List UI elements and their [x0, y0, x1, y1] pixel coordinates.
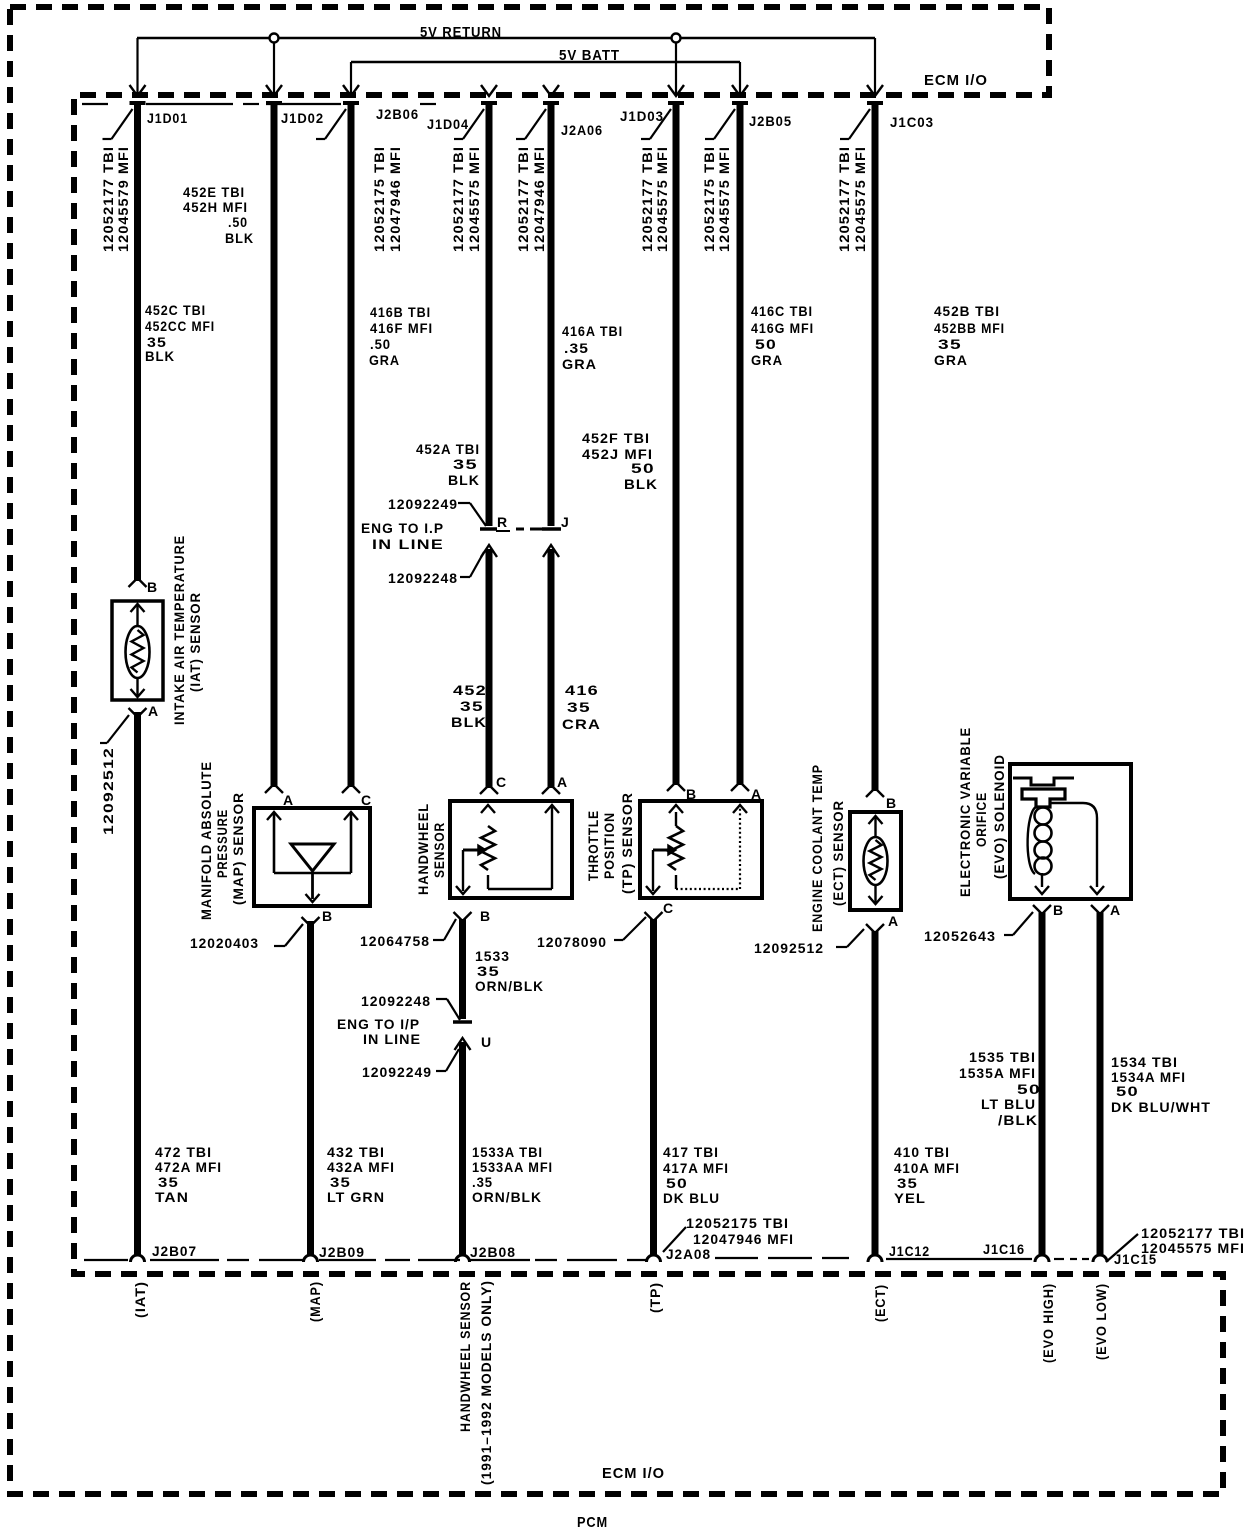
svg-text:12092249: 12092249: [388, 496, 458, 512]
svg-text:B: B: [1053, 902, 1064, 918]
svg-text:.35: .35: [472, 1174, 493, 1190]
svg-text:1535A MFI: 1535A MFI: [959, 1065, 1036, 1081]
svg-text:1535 TBI: 1535 TBI: [969, 1049, 1036, 1065]
svg-text:THROTTLE: THROTTLE: [585, 810, 601, 881]
svg-text:(ECT): (ECT): [872, 1284, 888, 1322]
svg-text:12052175 TBI: 12052175 TBI: [371, 146, 387, 252]
svg-text:U: U: [481, 1034, 492, 1050]
svg-text:BLK: BLK: [145, 348, 175, 364]
svg-text:ORN/BLK: ORN/BLK: [475, 978, 544, 994]
svg-text:12092249: 12092249: [362, 1064, 432, 1080]
svg-text:J1C15: J1C15: [1114, 1251, 1157, 1267]
svg-text:ENG TO I/P: ENG TO I/P: [337, 1016, 420, 1032]
svg-text:INTAKE AIR TEMPERATURE: INTAKE AIR TEMPERATURE: [171, 535, 187, 725]
svg-text:BLK: BLK: [448, 472, 480, 488]
svg-text:B: B: [886, 795, 897, 811]
svg-text:50: 50: [666, 1175, 688, 1191]
svg-text:5V BATT: 5V BATT: [559, 47, 620, 64]
svg-text:416: 416: [565, 682, 599, 698]
svg-text:35: 35: [938, 336, 962, 352]
svg-text:A: A: [751, 786, 762, 802]
svg-text:BLK: BLK: [624, 476, 658, 492]
svg-text:50: 50: [1017, 1081, 1041, 1097]
svg-text:J1D04: J1D04: [427, 116, 469, 132]
svg-text:C: C: [496, 774, 507, 790]
svg-text:B: B: [480, 908, 491, 924]
svg-text:GRA: GRA: [369, 352, 400, 368]
svg-text:452CC MFI: 452CC MFI: [145, 318, 215, 334]
svg-text:BLK: BLK: [451, 714, 487, 730]
svg-text:J2B07: J2B07: [152, 1243, 197, 1259]
svg-text:410A MFI: 410A MFI: [894, 1160, 960, 1176]
svg-text:5V RETURN: 5V RETURN: [420, 24, 502, 41]
svg-text:TAN: TAN: [155, 1189, 189, 1205]
svg-text:/BLK: /BLK: [998, 1112, 1038, 1128]
svg-text:IN LINE: IN LINE: [372, 536, 444, 552]
svg-text:PRESSURE: PRESSURE: [214, 809, 230, 878]
svg-text:417 TBI: 417 TBI: [663, 1144, 719, 1160]
svg-text:1534 TBI: 1534 TBI: [1111, 1054, 1178, 1070]
svg-text:35: 35: [158, 1174, 179, 1190]
svg-text:432 TBI: 432 TBI: [327, 1144, 385, 1160]
svg-text:DK BLU/WHT: DK BLU/WHT: [1111, 1099, 1211, 1115]
svg-text:J1C03: J1C03: [890, 114, 934, 130]
svg-text:ENGINE COOLANT TEMP: ENGINE COOLANT TEMP: [809, 764, 825, 932]
svg-text:ENG TO I.P: ENG TO I.P: [361, 520, 444, 536]
svg-text:12092512: 12092512: [100, 747, 116, 835]
svg-text:452H MFI: 452H MFI: [183, 199, 248, 215]
svg-text:BLK: BLK: [225, 230, 254, 246]
svg-text:12052177 TBI: 12052177 TBI: [1141, 1225, 1245, 1241]
svg-text:A: A: [557, 774, 568, 790]
svg-text:HANDWHEEL: HANDWHEEL: [415, 803, 431, 895]
svg-text:J2B09: J2B09: [319, 1244, 365, 1260]
svg-text:(ECT) SENSOR: (ECT) SENSOR: [830, 800, 846, 906]
svg-text:12020403: 12020403: [190, 935, 259, 951]
svg-text:J1D03: J1D03: [620, 108, 664, 124]
svg-text:12052177 TBI: 12052177 TBI: [836, 146, 852, 252]
svg-text:A: A: [888, 913, 899, 929]
svg-text:(TP) SENSOR: (TP) SENSOR: [619, 792, 635, 894]
svg-text:.50: .50: [228, 214, 248, 230]
svg-text:12047946 MFI: 12047946 MFI: [387, 146, 403, 252]
svg-text:LT GRN: LT GRN: [327, 1189, 385, 1205]
svg-text:12045579 MFI: 12045579 MFI: [115, 146, 131, 252]
svg-text:452E TBI: 452E TBI: [183, 184, 245, 200]
svg-text:(IAT) SENSOR: (IAT) SENSOR: [187, 592, 203, 692]
svg-text:432A MFI: 432A MFI: [327, 1159, 395, 1175]
svg-text:12064758: 12064758: [360, 933, 430, 949]
svg-text:ECM I/O: ECM I/O: [602, 1465, 665, 1482]
svg-text:12092512: 12092512: [754, 940, 824, 956]
svg-text:J1C16: J1C16: [983, 1241, 1025, 1257]
svg-text:ORIFICE: ORIFICE: [973, 792, 989, 847]
svg-text:35: 35: [330, 1174, 351, 1190]
svg-text:12045575 MFI: 12045575 MFI: [466, 146, 482, 252]
svg-text:416B TBI: 416B TBI: [370, 304, 431, 320]
svg-text:GRA: GRA: [751, 352, 783, 368]
svg-text:A: A: [1110, 902, 1121, 918]
svg-text:452: 452: [453, 682, 487, 698]
svg-text:35: 35: [567, 699, 591, 715]
svg-text:12092248: 12092248: [388, 570, 458, 586]
svg-text:J2B05: J2B05: [749, 113, 792, 129]
svg-text:J2A08: J2A08: [666, 1246, 711, 1262]
svg-text:CRA: CRA: [562, 716, 601, 732]
svg-text:50: 50: [1116, 1083, 1139, 1099]
svg-text:IN LINE: IN LINE: [363, 1031, 421, 1047]
svg-text:417A MFI: 417A MFI: [663, 1160, 729, 1176]
svg-text:J1D02: J1D02: [281, 110, 324, 126]
svg-text:50: 50: [755, 336, 777, 352]
svg-text:A: A: [148, 703, 159, 719]
svg-text:35: 35: [477, 963, 500, 979]
svg-text:.35: .35: [564, 340, 589, 356]
svg-text:1533A TBI: 1533A TBI: [472, 1144, 543, 1160]
svg-text:12045575 MFI: 12045575 MFI: [716, 146, 732, 252]
svg-text:POSITION: POSITION: [601, 812, 617, 879]
svg-text:452F TBI: 452F TBI: [582, 430, 650, 446]
svg-text:1533: 1533: [475, 948, 510, 964]
svg-text:35: 35: [460, 698, 484, 714]
svg-text:416F MFI: 416F MFI: [370, 320, 433, 336]
svg-text:DK BLU: DK BLU: [663, 1190, 720, 1206]
svg-text:452A TBI: 452A TBI: [416, 441, 480, 457]
svg-text:35: 35: [897, 1175, 918, 1191]
svg-text:(EVO HIGH): (EVO HIGH): [1040, 1283, 1056, 1363]
svg-text:MANIFOLD ABSOLUTE: MANIFOLD ABSOLUTE: [198, 761, 214, 920]
svg-text:472A MFI: 472A MFI: [155, 1159, 222, 1175]
svg-text:PCM: PCM: [577, 1514, 608, 1531]
svg-text:472 TBI: 472 TBI: [155, 1144, 212, 1160]
svg-text:12052177 TBI: 12052177 TBI: [515, 146, 531, 252]
svg-text:J2B08: J2B08: [470, 1244, 516, 1260]
svg-text:GRA: GRA: [934, 352, 968, 368]
svg-text:(TP): (TP): [647, 1282, 663, 1313]
svg-text:J1D01: J1D01: [147, 110, 188, 126]
svg-text:(EVO LOW): (EVO LOW): [1093, 1283, 1109, 1360]
svg-text:J1C12: J1C12: [889, 1243, 930, 1259]
svg-text:C: C: [361, 792, 372, 808]
svg-text:12052643: 12052643: [924, 928, 996, 944]
svg-text:12052177 TBI: 12052177 TBI: [450, 146, 466, 252]
svg-text:ELECTRONIC VARIABLE: ELECTRONIC VARIABLE: [957, 727, 973, 897]
svg-text:C: C: [663, 900, 674, 916]
svg-text:452B TBI: 452B TBI: [934, 303, 1000, 319]
svg-text:(MAP): (MAP): [307, 1281, 323, 1322]
svg-text:12092248: 12092248: [361, 993, 431, 1009]
svg-text:416G MFI: 416G MFI: [751, 320, 814, 336]
svg-text:B: B: [322, 908, 333, 924]
svg-text:12078090: 12078090: [537, 934, 607, 950]
svg-text:1533AA MFI: 1533AA MFI: [472, 1159, 553, 1175]
svg-text:12045575 MFI: 12045575 MFI: [852, 146, 868, 252]
svg-text:B: B: [686, 786, 697, 802]
svg-text:452C TBI: 452C TBI: [145, 302, 206, 318]
svg-text:R: R: [497, 514, 508, 530]
svg-text:(EVO) SOLENOID: (EVO) SOLENOID: [991, 754, 1007, 879]
svg-text:416A TBI: 416A TBI: [562, 323, 623, 339]
svg-text:12052175 TBI: 12052175 TBI: [686, 1215, 789, 1231]
svg-text:A: A: [283, 792, 294, 808]
svg-text:J2A06: J2A06: [561, 122, 603, 138]
svg-text:12047946 MFI: 12047946 MFI: [531, 146, 547, 252]
svg-text:410 TBI: 410 TBI: [894, 1144, 950, 1160]
svg-text:(1991–1992 MODELS ONLY): (1991–1992 MODELS ONLY): [478, 1280, 494, 1485]
svg-text:12052177 TBI: 12052177 TBI: [639, 146, 655, 252]
svg-text:416C TBI: 416C TBI: [751, 303, 813, 319]
svg-text:B: B: [147, 579, 158, 595]
svg-text:35: 35: [453, 456, 478, 472]
svg-text:12052175 TBI: 12052175 TBI: [701, 146, 717, 252]
svg-text:SENSOR: SENSOR: [431, 822, 447, 878]
svg-text:LT BLU: LT BLU: [981, 1096, 1036, 1112]
svg-text:.50: .50: [370, 336, 391, 352]
svg-text:YEL: YEL: [894, 1190, 926, 1206]
svg-text:J: J: [561, 514, 570, 530]
svg-text:HANDWHEEL SENSOR: HANDWHEEL SENSOR: [457, 1281, 473, 1432]
svg-text:J2B06: J2B06: [376, 106, 419, 122]
svg-text:ECM I/O: ECM I/O: [924, 72, 988, 89]
svg-text:(MAP) SENSOR: (MAP) SENSOR: [230, 792, 246, 905]
svg-text:ORN/BLK: ORN/BLK: [472, 1189, 542, 1205]
svg-text:50: 50: [631, 460, 655, 476]
svg-text:12045575 MFI: 12045575 MFI: [654, 146, 670, 252]
svg-text:452BB MFI: 452BB MFI: [934, 320, 1005, 336]
svg-text:12052177 TBI: 12052177 TBI: [100, 146, 116, 252]
svg-text:GRA: GRA: [562, 356, 597, 372]
svg-text:12047946 MFI: 12047946 MFI: [693, 1231, 794, 1247]
svg-text:(IAT): (IAT): [132, 1281, 148, 1318]
